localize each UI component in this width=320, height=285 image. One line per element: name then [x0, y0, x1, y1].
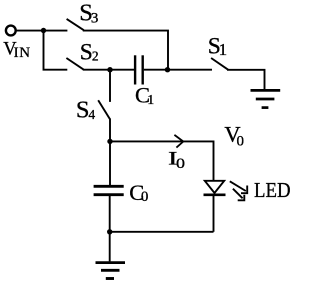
svg-text:2: 2: [92, 48, 99, 63]
svg-text:0: 0: [141, 189, 149, 205]
svg-text:LED: LED: [254, 180, 291, 202]
svg-text:IN: IN: [14, 45, 31, 61]
svg-text:1: 1: [219, 40, 228, 59]
svg-text:4: 4: [88, 107, 95, 122]
svg-text:3: 3: [91, 11, 99, 27]
svg-text:0: 0: [176, 156, 185, 172]
svg-text:0: 0: [237, 134, 245, 150]
svg-text:1: 1: [147, 93, 154, 108]
svg-text:S: S: [80, 39, 93, 65]
